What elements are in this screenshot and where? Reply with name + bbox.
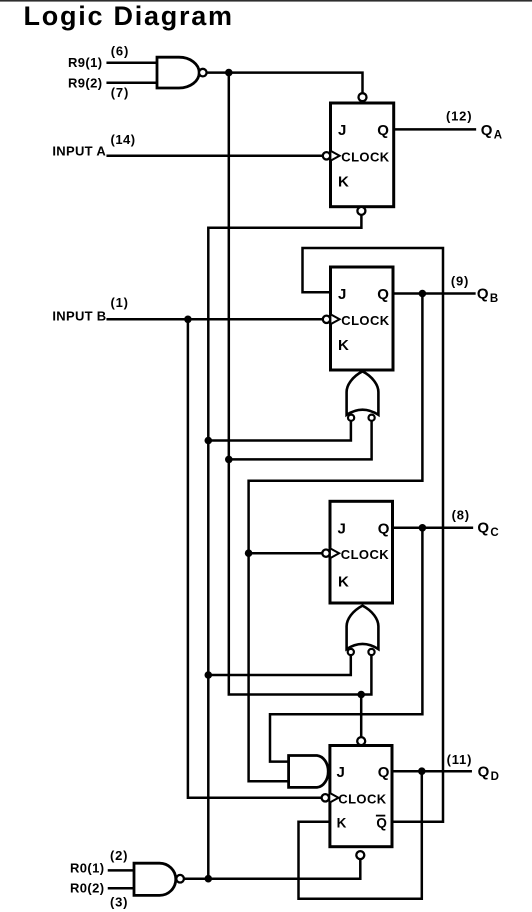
svg-text:K: K bbox=[338, 174, 349, 191]
wire R9 NAND output to FF A preset bbox=[207, 73, 363, 94]
svg-text:CLOCK: CLOCK bbox=[341, 547, 389, 562]
svg-text:(9): (9) bbox=[451, 273, 469, 288]
wire QC feedback to AND gate upper input bbox=[270, 528, 422, 762]
node R0 NAND output junction bbox=[205, 875, 213, 883]
svg-text:B: B bbox=[490, 293, 498, 305]
wire R0 branch to OR gate under FF C bbox=[208, 656, 350, 675]
svg-text:(1): (1) bbox=[111, 295, 129, 310]
svg-text:(3): (3) bbox=[110, 895, 128, 910]
svg-text:K: K bbox=[337, 815, 347, 830]
NAND gate R9 bbox=[157, 57, 207, 88]
svg-text:(14): (14) bbox=[111, 132, 136, 147]
wire R9(2) input bbox=[108, 82, 157, 85]
OR gate under FF B (clear gate) bbox=[347, 371, 379, 421]
flip-flop C clock triangle bbox=[331, 549, 339, 558]
svg-text:Q: Q bbox=[478, 764, 490, 781]
svg-text:(2): (2) bbox=[110, 848, 128, 863]
flip-flop C box bbox=[330, 501, 393, 603]
svg-text:(6): (6) bbox=[111, 44, 129, 59]
svg-text:Q: Q bbox=[378, 764, 390, 781]
wire R9 vertical rail down to OR gate under FF C bbox=[229, 73, 372, 695]
node R0 to OR-B junction bbox=[205, 437, 213, 445]
svg-text:Q: Q bbox=[377, 122, 389, 139]
svg-text:(12): (12) bbox=[446, 109, 472, 124]
wire R9 branch to OR gate under FF B bbox=[229, 422, 372, 460]
svg-text:Q: Q bbox=[481, 122, 493, 139]
flip-flop B box bbox=[331, 267, 394, 370]
flip-flop C clock bubble bbox=[322, 550, 329, 557]
wire R0(2) input bbox=[109, 887, 133, 890]
NAND gate R0 bbox=[134, 863, 184, 895]
svg-text:K: K bbox=[338, 573, 349, 590]
svg-text:CLOCK: CLOCK bbox=[341, 313, 389, 328]
svg-text:INPUT A: INPUT A bbox=[52, 144, 106, 159]
svg-text:CLOCK: CLOCK bbox=[338, 791, 386, 806]
node R9 to OR-B junction bbox=[225, 456, 233, 464]
AND gate U-D (QB.QC to FF D J) bbox=[289, 756, 329, 788]
flip-flop D labels bbox=[337, 764, 390, 781]
wire R9 branch to FF D preset bbox=[360, 695, 363, 738]
wire R9(1) input bbox=[108, 61, 157, 64]
svg-text:J: J bbox=[338, 122, 346, 139]
flip-flop B labels bbox=[338, 286, 389, 354]
svg-text:(11): (11) bbox=[447, 752, 473, 767]
node QB junction bbox=[419, 290, 427, 298]
svg-text:Q: Q bbox=[378, 521, 390, 538]
svg-text:R0(1): R0(1) bbox=[70, 861, 105, 876]
wire QD output bbox=[392, 770, 471, 773]
flip-flop C labels bbox=[338, 521, 390, 591]
flip-flop D clock triangle bbox=[330, 793, 338, 802]
wire QB output bbox=[393, 292, 474, 295]
wire INPUT B to FF B clock bbox=[108, 318, 323, 321]
svg-text:D: D bbox=[491, 771, 499, 783]
flip-flop D preset bubble bbox=[357, 737, 365, 745]
wire QA output bbox=[394, 128, 475, 131]
flip-flop A preset bubble bbox=[359, 93, 367, 101]
wire QB feedback to AND gate lower input bbox=[249, 294, 423, 782]
wire R0 branch to OR gate under FF B bbox=[208, 422, 351, 441]
svg-text:CLOCK: CLOCK bbox=[341, 149, 389, 164]
node R0 to OR-C junction bbox=[205, 671, 213, 679]
flip-flop D box bbox=[330, 746, 392, 847]
flip-flop B clock bubble bbox=[323, 316, 330, 323]
svg-text:J: J bbox=[338, 286, 346, 303]
node QC junction bbox=[419, 524, 427, 532]
flip-flop A box bbox=[331, 103, 394, 207]
svg-text:J: J bbox=[338, 521, 346, 538]
node QD junction bbox=[418, 767, 426, 775]
node R9 NAND output junction bbox=[225, 69, 233, 77]
flip-flop A clear bubble bbox=[357, 207, 365, 215]
wire QD feedback to FF D K input bbox=[299, 771, 422, 899]
OR gate under FF C (clear gate) bbox=[347, 606, 379, 656]
wire QC output bbox=[393, 527, 472, 530]
wire QB branch to FF C clock bbox=[249, 552, 323, 555]
node QB to FF C clock junction bbox=[245, 549, 253, 557]
svg-text:K: K bbox=[338, 337, 349, 354]
wire INPUT B branch to FF D clock bbox=[188, 319, 321, 798]
svg-text:Q: Q bbox=[477, 520, 489, 537]
flip-flop D clock bubble bbox=[322, 794, 329, 801]
svg-text:Logic Diagram: Logic Diagram bbox=[24, 1, 234, 31]
svg-text:R9(2): R9(2) bbox=[68, 75, 103, 90]
flip-flop A clock bubble bbox=[323, 152, 330, 159]
svg-text:INPUT B: INPUT B bbox=[52, 308, 106, 323]
node INPUT B junction bbox=[184, 316, 192, 324]
node R9 to FF D preset junction bbox=[357, 691, 365, 699]
flip-flop B clock triangle bbox=[331, 315, 339, 324]
svg-text:R0(2): R0(2) bbox=[70, 881, 105, 896]
svg-text:(7): (7) bbox=[111, 85, 129, 100]
flip-flop A clock triangle bbox=[331, 151, 339, 160]
flip-flop D Q-bar overline bbox=[376, 815, 385, 817]
wire R0(1) input bbox=[109, 869, 133, 872]
flip-flop A labels bbox=[338, 122, 389, 191]
svg-text:Q: Q bbox=[377, 286, 389, 303]
svg-text:Q: Q bbox=[477, 286, 489, 303]
wire INPUT A to FF A clock bbox=[108, 155, 323, 158]
wire R0 NAND output to FF D clear bbox=[184, 859, 360, 879]
wire R0 vertical rail up to FF A clear bbox=[208, 215, 361, 879]
svg-text:R9(1): R9(1) bbox=[68, 55, 103, 70]
svg-text:A: A bbox=[494, 130, 502, 142]
svg-text:J: J bbox=[337, 764, 345, 781]
svg-text:C: C bbox=[490, 527, 498, 539]
svg-text:(8): (8) bbox=[452, 507, 470, 522]
wire Q-bar D feedback to FF B J input bbox=[303, 248, 444, 822]
flip-flop D clear bubble bbox=[356, 851, 364, 859]
svg-text:Q: Q bbox=[376, 816, 387, 831]
